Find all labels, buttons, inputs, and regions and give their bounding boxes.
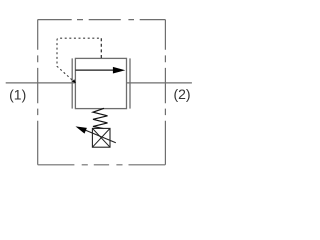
svg-text:(1): (1) [9,86,26,102]
component boundary, right edge [164,20,166,165]
flow arrow inside valve [75,69,113,71]
adjustment arrow (diagonal) [85,130,116,143]
pilot line (dashed) down to valve top [100,38,102,58]
port mark line right [129,58,131,108]
port mark line left [71,58,73,108]
svg-text:(2): (2) [173,86,190,102]
adjustment box with X [92,128,110,147]
spring [93,108,108,128]
component boundary, left edge [37,20,39,165]
pilot line (dotted) from port 1 up and over [57,38,101,83]
wire: main line port 1 side [6,82,76,84]
pilot arrowhead at junction [72,79,76,83]
component boundary, bottom edge [38,164,166,166]
component boundary (long-dash enclosure), top edge [38,19,166,21]
valve envelope box [75,58,126,108]
wire: main line port 2 side [127,82,192,84]
